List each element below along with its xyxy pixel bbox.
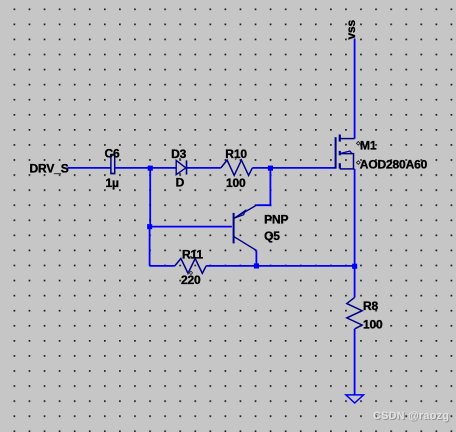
- wire DRV_S to C6: [68, 167, 112, 169]
- value 220: [181, 273, 201, 287]
- svg-text:R11: R11: [182, 248, 203, 262]
- ground: [346, 395, 364, 403]
- label R8: [363, 299, 379, 313]
- anchor marks M1: [357, 142, 361, 165]
- wire R8 to ground: [354, 329, 356, 395]
- label D3: [171, 147, 187, 161]
- junction node at collector tee: [254, 263, 259, 268]
- svg-text:R8: R8: [363, 299, 379, 313]
- svg-text:DRV_S: DRV_S: [30, 162, 69, 176]
- capacitor C6: [110, 155, 115, 174]
- wire vss to M1 drain: [354, 39, 356, 139]
- diode D3: [176, 160, 186, 174]
- wire Q5 collector down: [255, 250, 257, 266]
- node vss label: [344, 19, 358, 39]
- junction node at base tee: [147, 224, 152, 229]
- label R11: [182, 248, 203, 262]
- svg-text:CSDN @raozg: CSDN @raozg: [373, 410, 449, 422]
- wire C6 to D3: [115, 167, 176, 169]
- svg-text:M1: M1: [360, 139, 377, 153]
- svg-text:D3: D3: [171, 147, 187, 161]
- label PNP: [264, 213, 288, 227]
- anchor mark R10: [235, 159, 237, 161]
- resistor R10: [221, 160, 252, 175]
- svg-text:C6: C6: [105, 147, 121, 161]
- label C6: [105, 147, 121, 161]
- resistor R8: [347, 297, 362, 329]
- svg-text:220: 220: [181, 273, 201, 287]
- value 100: [226, 176, 246, 190]
- junction node at source/R8 tee: [352, 264, 357, 269]
- node DRV_S label: [30, 162, 69, 176]
- svg-text:AOD280A60: AOD280A60: [360, 158, 428, 172]
- wire junction down to Q5 base tee: [149, 168, 151, 227]
- transistor Q5 (PNP): [234, 205, 257, 250]
- svg-text:Q5: Q5: [264, 229, 280, 243]
- wire base tee down to R11: [150, 227, 175, 266]
- svg-text:100: 100: [226, 176, 246, 190]
- label M1: [360, 139, 377, 153]
- svg-text:100: 100: [363, 318, 383, 332]
- svg-text:PNP: PNP: [264, 213, 288, 227]
- watermark: [373, 410, 450, 423]
- mosfet M1: [336, 135, 355, 169]
- junction node at C6/D3 tee: [148, 166, 153, 171]
- wire Q5 base to tee: [150, 226, 232, 228]
- anchor mark D3: [179, 158, 181, 175]
- wire R10 to M1 gate: [252, 167, 335, 169]
- resistor R11: [175, 259, 206, 274]
- svg-text:vss: vss: [344, 19, 358, 39]
- label Q5: [264, 229, 280, 243]
- svg-text:1µ: 1µ: [106, 176, 120, 190]
- wire junction down to Q5 emitter: [256, 168, 270, 205]
- value D: [176, 175, 185, 189]
- wire R11 to collector junction: [206, 265, 256, 267]
- label R10: [225, 147, 247, 161]
- value AOD280A60: [360, 158, 428, 172]
- wire collector tee to source line: [256, 265, 354, 267]
- svg-text:D: D: [176, 175, 185, 189]
- wire D3 to R10: [187, 167, 221, 169]
- junction node at R10/emitter tee: [268, 166, 273, 171]
- value 100: [363, 318, 383, 332]
- wire M1 source down through junction to R8: [354, 169, 356, 298]
- anchor marks R11: [189, 256, 192, 274]
- value 1µ: [106, 176, 120, 190]
